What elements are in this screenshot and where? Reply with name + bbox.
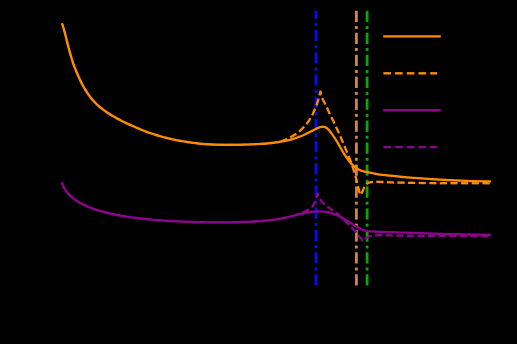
legend line purple solid [383,109,441,111]
curve orange dashed [62,24,490,195]
legend line orange dashed [383,72,437,74]
legend line purple dashed [383,146,437,148]
legend line orange solid [383,35,441,37]
vertical dash-dot line green [366,11,369,286]
curve orange solid [62,24,490,181]
curve purple dashed [62,183,490,241]
vertical dash-dot line blue [315,11,318,286]
curve purple solid [62,183,490,235]
vertical dash-dot line peru [355,11,358,286]
